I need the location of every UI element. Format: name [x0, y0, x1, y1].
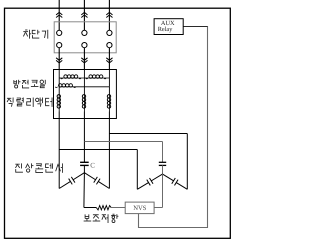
series reactor coil phase1 — [58, 95, 60, 112]
relay AUX box — [154, 19, 183, 35]
reactor box (방전코일/직렬리액터) — [54, 70, 117, 119]
wire: bus phase1 to right bank left branch — [59, 149, 137, 151]
wire: phase2 into reactor coil — [83, 87, 85, 95]
label 방전코일 — [13, 80, 15, 84]
discharge coil row1 phase2-3 — [84, 77, 109, 79]
label 차단기 — [25, 29, 27, 31]
breaker contact upper, phase 3 — [107, 30, 112, 35]
wire: phase3 down to left bank — [108, 112, 110, 189]
wire: phase 3 breaker to reactor — [108, 48, 110, 70]
label 보조저항 — [84, 214, 86, 218]
breaker contact lower, phase 1 — [57, 43, 62, 48]
wire: incoming phase 3 from top — [108, 0, 110, 30]
series reactor coil phase2 — [83, 95, 85, 112]
breaker contact lower, phase 3 — [107, 43, 112, 48]
wire: phase3 into reactor coil — [108, 87, 110, 95]
wire: phase 1 breaker to reactor — [58, 48, 60, 70]
label 직렬리액터 — [7, 97, 11, 99]
wire: phase1 down to left bank — [58, 112, 60, 189]
svg-text:Relay: Relay — [158, 26, 174, 33]
capacitor right bank left branch (diagonal) — [137, 183, 148, 190]
capacitor C plates (left bank) — [80, 161, 89, 163]
arrow: power flow up-chevrons — [56, 12, 62, 15]
label 진상콘덴서 — [15, 163, 19, 165]
arrow: power flow up-chevrons — [106, 12, 112, 15]
wire: phase1 into reactor coil — [58, 78, 60, 95]
discharge coil row2 phase1-3 — [59, 86, 74, 88]
series reactor coil phase3 — [108, 95, 110, 112]
wire: phase verticals inside reactor box — [58, 70, 60, 79]
wire: plate to right star point — [162, 165, 164, 174]
wire: right star point down to NVS — [162, 174, 164, 207]
wire: phase2 down to capacitor C — [83, 112, 85, 163]
arrow: flow down-chevrons — [81, 58, 87, 61]
resistor 보조저항 — [96, 206, 111, 210]
capacitor left bank T-branch (diagonal) — [98, 181, 109, 188]
wire: incoming phase 2 from top — [83, 0, 85, 30]
breaker contact upper, phase 1 — [57, 30, 62, 35]
wire: NVS to AUX relay loop — [139, 27, 208, 228]
discharge coil row1 phase1-2 — [59, 77, 84, 79]
circuit breaker box (차단기) — [54, 22, 116, 53]
wire: bus phase3 to right bank right branch — [109, 133, 187, 135]
arrow: power flow up-chevrons — [81, 12, 87, 15]
breaker contact lower, phase 2 — [82, 43, 87, 48]
arrow: flow down-chevrons — [106, 58, 112, 61]
wire: star point to resistor — [84, 207, 97, 209]
svg-text:NVS: NVS — [133, 205, 147, 212]
wire: phase 2 breaker to reactor — [83, 48, 85, 70]
capacitor left bank R-branch (diagonal) — [59, 181, 70, 188]
capacitor plates (right bank) — [159, 161, 166, 163]
wire: plate to left star point — [83, 165, 85, 172]
wire: AUX relay lead — [183, 26, 207, 28]
border frame (decorative) — [5, 8, 231, 238]
wire: incoming phase 1 from top — [58, 0, 60, 30]
breaker contact upper, phase 2 — [82, 30, 87, 35]
wire: resistor to NVS — [111, 207, 125, 209]
capacitor right bank right branch (diagonal) — [176, 183, 187, 190]
wire: bus phase2 to right bank centre — [84, 141, 162, 143]
node: left bank star point to resistor — [83, 173, 86, 208]
arrow: flow down-chevrons — [56, 58, 62, 61]
relay NVS box — [125, 202, 154, 214]
svg-text:C: C — [90, 161, 95, 169]
